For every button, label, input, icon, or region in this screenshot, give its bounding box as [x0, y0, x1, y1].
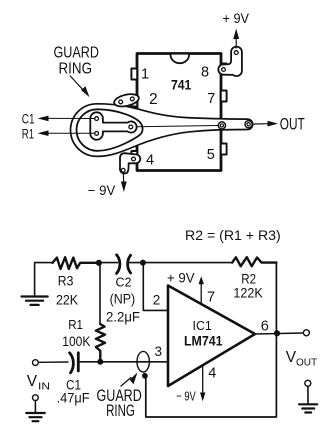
svg-text:− 9V: − 9V [88, 183, 116, 198]
ground (left, input) [22, 297, 48, 305]
+9V arrow [235, 33, 237, 48]
svg-text:IN: IN [38, 381, 50, 392]
ground (bottom left, VIN) [26, 413, 44, 421]
guard ring inner outline (ring hole) [77, 109, 143, 151]
wire node to op-amp pin 2 [143, 263, 168, 311]
guard ring outer outline merged with output tongue [71, 104, 253, 157]
wire inside tongue from pin3 pad to OUT pad [137, 126, 219, 127]
svg-text:R1: R1 [22, 126, 34, 141]
pad hole R1 [95, 132, 99, 136]
pad hole C1 [95, 117, 99, 121]
guard ring drive pad [142, 373, 148, 379]
svg-text:IC1: IC1 [193, 318, 212, 333]
leader line to C1 label [47, 117, 95, 119]
svg-text:3: 3 [155, 344, 163, 359]
-9V arrow [122, 175, 124, 185]
svg-text:V: V [27, 373, 38, 390]
wire VIN lower terminal to ground [34, 401, 36, 413]
feedback rail down to output [275, 263, 277, 334]
svg-text:8: 8 [201, 65, 209, 81]
-9V supply finger with pads at pin 4 [120, 153, 140, 173]
svg-text:+ 9V: + 9V [167, 271, 195, 286]
wire VIN to C1 [38, 361, 68, 363]
svg-text:4: 4 [208, 366, 216, 382]
pin 2 stub [131, 96, 137, 107]
OUT pad near pin 6 [218, 122, 225, 129]
svg-text:1: 1 [141, 66, 149, 82]
svg-text:RING: RING [59, 61, 93, 78]
pin 2 pad ellipse with two holes [113, 92, 140, 109]
svg-text:22K: 22K [56, 292, 79, 308]
resistor R3 22K zigzag [53, 257, 99, 269]
feedback rail to R2 [143, 262, 232, 264]
svg-text:LM741: LM741 [184, 333, 223, 348]
wire R1 top [99, 263, 101, 324]
GUARD RING leader arrow (top) [70, 76, 84, 92]
input island pads (C1/R1 pads and pin3 stem) inside guard ring [90, 112, 136, 139]
pad hole pin 4 [132, 157, 136, 161]
OUT terminal pad [245, 121, 252, 128]
ground (right, output) [299, 404, 317, 412]
svg-text:7: 7 [207, 290, 215, 306]
svg-text:7: 7 [207, 91, 215, 107]
OUT arrow [254, 123, 269, 125]
wire op-amp output [255, 333, 303, 334]
GUARD RING leader arrow (bottom) [121, 378, 131, 387]
svg-text:2: 2 [153, 293, 161, 308]
pin 7 supply arrow (+9V) [200, 282, 202, 304]
svg-text:RING: RING [106, 402, 135, 420]
svg-text:122K: 122K [233, 285, 263, 301]
svg-text:R3: R3 [58, 274, 74, 289]
wire guard ring to bottom rail to output [146, 333, 277, 417]
wire R3 to C2 [99, 262, 118, 264]
svg-text:4: 4 [146, 152, 154, 168]
VOUT lower terminal [305, 380, 311, 386]
svg-text:741: 741 [171, 77, 192, 92]
node dot R3/R1/C2 [96, 260, 102, 266]
pin 7 stub [221, 91, 227, 102]
VIN lower terminal [33, 395, 39, 401]
svg-text:2: 2 [149, 91, 158, 108]
op-amp U1 741 DIP-8 package body [137, 54, 221, 171]
svg-text:100K: 100K [62, 333, 91, 349]
pin 4 stub [131, 151, 137, 162]
pad hole pin3 [129, 125, 133, 129]
svg-text:C1: C1 [22, 112, 35, 127]
op-amp IC1 triangle [168, 286, 255, 387]
leader line to R1 label [47, 132, 95, 134]
svg-text:+ 9V: + 9V [223, 11, 250, 26]
node dot R1/VIN line [97, 359, 103, 365]
pin 5 stub [221, 144, 227, 155]
capacitor C2 (NP) curved plates [117, 255, 131, 274]
svg-text:OUT: OUT [296, 358, 317, 369]
svg-text:C2: C2 [116, 274, 132, 289]
wire ground to R3 [35, 263, 52, 295]
pad hole +9V [234, 51, 238, 55]
IC notch [171, 55, 190, 64]
wire C2 to node [130, 262, 143, 264]
wire C1 to pin 3 through guard ring [79, 361, 169, 363]
node dot C2/feedback/pin2 [140, 260, 146, 266]
+9V supply finger with pads at pin 8 [218, 47, 242, 76]
node dot output [274, 330, 280, 336]
svg-text:OUT: OUT [280, 115, 305, 133]
svg-text:6: 6 [261, 319, 269, 335]
VOUT terminal [303, 330, 309, 336]
pin 8 stub [221, 64, 227, 75]
capacitor C1 curved+flat plates [70, 353, 79, 373]
svg-text:R2 = (R1 + R3): R2 = (R1 + R3) [185, 227, 281, 243]
svg-text:(NP): (NP) [110, 292, 136, 307]
svg-text:.47μF: .47μF [57, 390, 90, 406]
wire VOUT lower terminal to ground [307, 386, 309, 403]
VIN terminal [33, 360, 39, 366]
svg-text:R1: R1 [68, 317, 83, 332]
resistor R2 122K zigzag [232, 257, 276, 266]
pad hole pin 8 [222, 68, 226, 72]
svg-text:− 9V: − 9V [176, 389, 196, 404]
guard ring ellipse (bottom circuit) [137, 351, 149, 372]
svg-text:2.2μF: 2.2μF [106, 309, 140, 325]
svg-text:GUARD: GUARD [54, 44, 100, 61]
pin 4 supply arrow (-9V) [202, 366, 204, 393]
resistor R1 100K zigzag (vertical) [96, 324, 105, 362]
svg-text:5: 5 [207, 147, 215, 163]
pin 1 stub [131, 69, 137, 80]
pad hole -9V [121, 168, 125, 172]
